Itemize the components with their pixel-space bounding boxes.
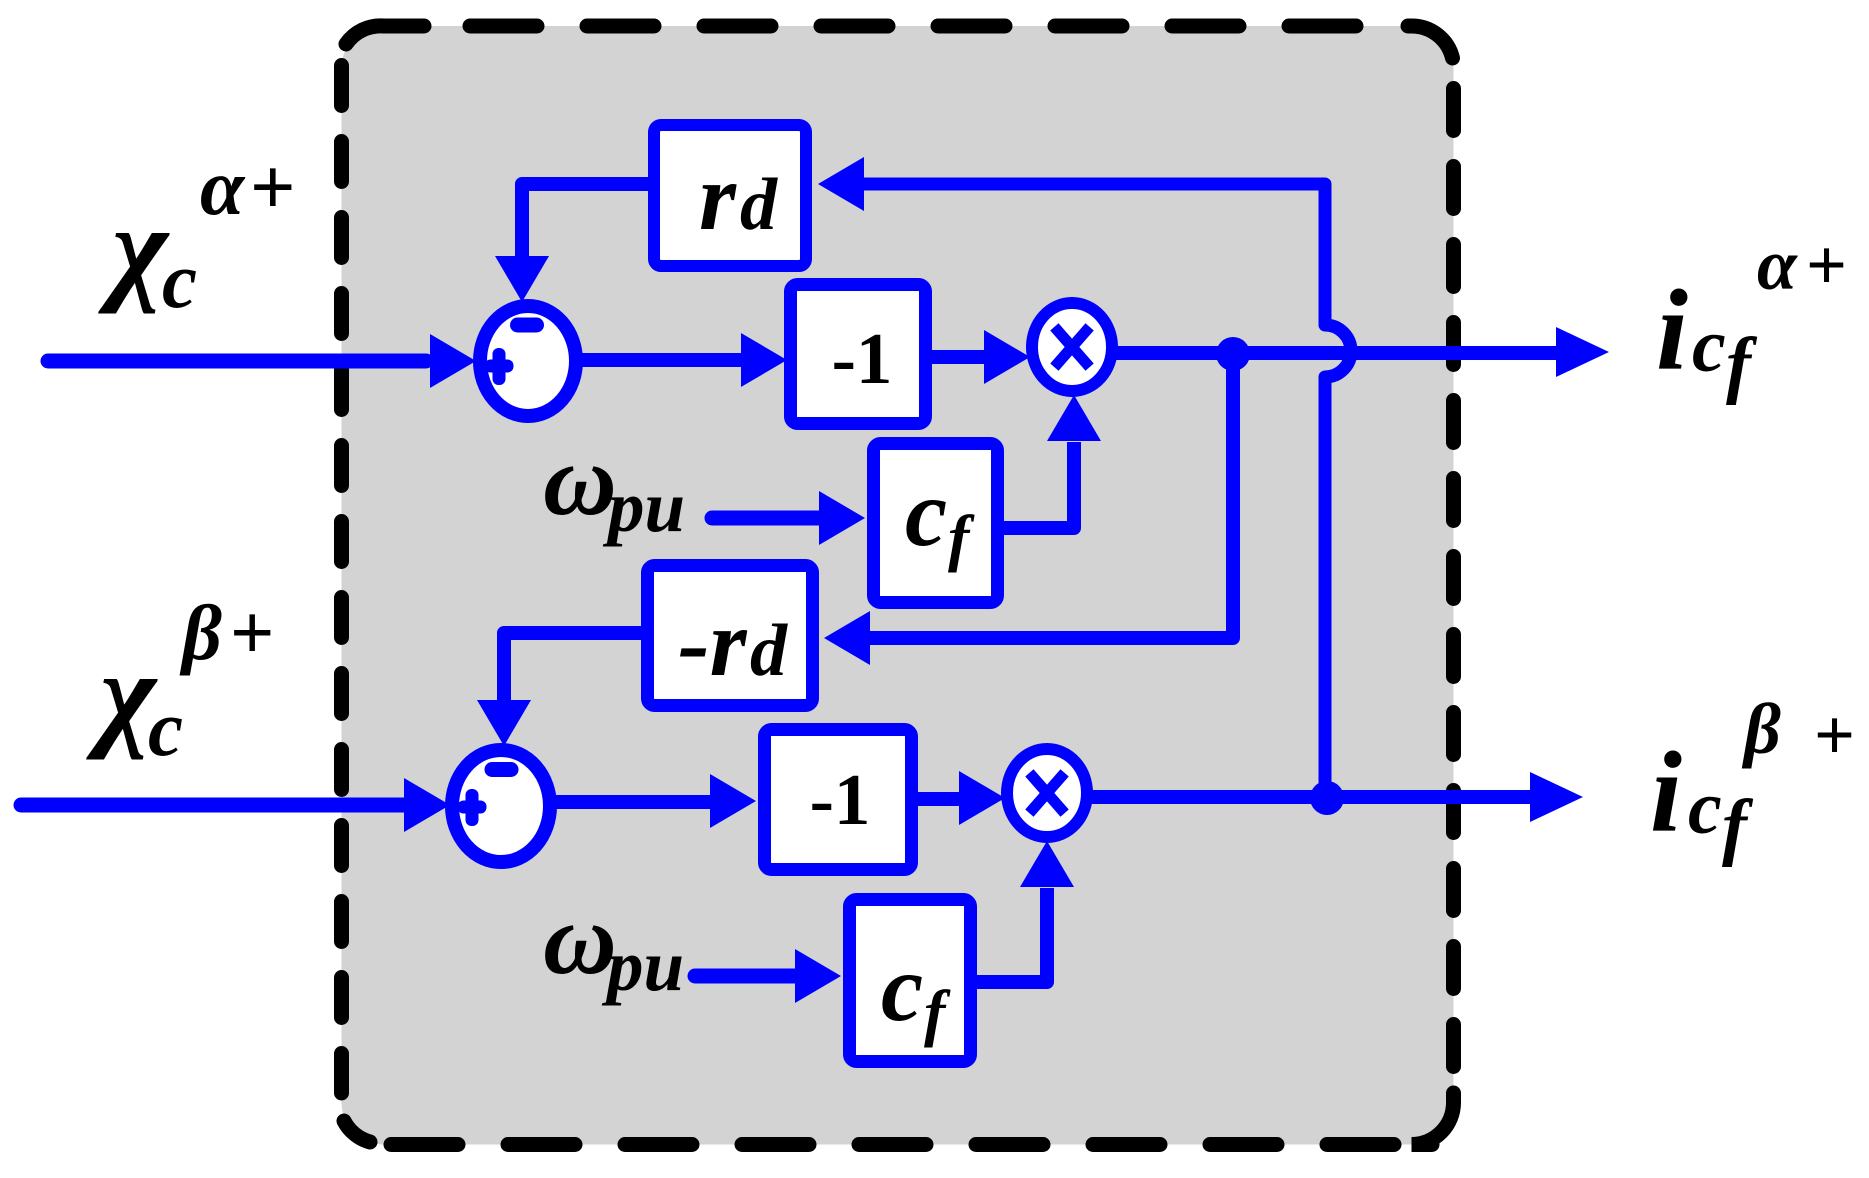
wire cf1 to M1 (1004, 442, 1074, 528)
wire omega_pu to cf (top) (712, 511, 822, 526)
arrow into -1 block (bottom) (710, 774, 756, 828)
arrow output alpha (1556, 327, 1609, 377)
minus sign of S2 (485, 762, 519, 777)
node label chi_c_alpha+ (input alpha) (98, 144, 296, 325)
border corner bottom-right (1412, 1093, 1454, 1145)
node label omega_pu (top) (543, 424, 685, 547)
node A (junction on alpha output) (1216, 337, 1250, 371)
border right edge (dashed) (1446, 89, 1461, 1085)
wire M2 to output beta (1087, 790, 1530, 804)
svg-text:c: c (881, 935, 923, 1041)
arrow into S1 top (495, 256, 549, 302)
wire -rd output to S2 (504, 633, 641, 704)
svg-text:c: c (1688, 766, 1722, 850)
gain block rd (654, 125, 806, 266)
arrow output beta (1530, 772, 1583, 822)
node B (junction on beta output) (1310, 781, 1344, 815)
wire -1 to multiplier (top) (932, 350, 987, 364)
node label chi_c_beta+ (input beta) (86, 589, 274, 773)
node label i_cf_alpha+ (output alpha) (1656, 225, 1847, 406)
svg-text:α: α (1757, 225, 1798, 305)
svg-text:χ: χ (98, 181, 170, 314)
gain block cf (top) (874, 444, 998, 603)
border top edge (dashed) (470, 19, 1404, 34)
arrow into summing junction S1 (430, 334, 476, 388)
arrow into multiplier M1 (984, 330, 1030, 384)
svg-text:-1: -1 (810, 759, 871, 840)
summing junction S2 (452, 750, 550, 862)
arrow into M1 bottom (1047, 395, 1101, 441)
svg-text:+: + (250, 144, 296, 232)
svg-text:pu: pu (602, 466, 685, 547)
svg-text:c: c (1692, 304, 1726, 388)
svg-text:f: f (1726, 323, 1758, 406)
plus sign of S2 (458, 789, 487, 826)
node label i_cf_beta+ (output beta) (1650, 689, 1855, 868)
svg-text:β: β (1741, 689, 1781, 769)
gain block -rd (648, 566, 813, 706)
gain block -1 (bottom) (765, 730, 912, 870)
multiplier M2 (bottom) (1007, 749, 1087, 837)
node label omega_pu (bottom) (543, 883, 684, 1006)
dashed boundary box (gray fill) (342, 26, 1454, 1145)
svg-text:+: + (1814, 695, 1855, 775)
svg-text:+: + (1806, 225, 1847, 305)
svg-text:c: c (162, 238, 197, 325)
wire S1 to block -1 (top) (576, 353, 744, 367)
arrow into rd block (818, 157, 864, 211)
gain block cf (bottom) (850, 900, 971, 1062)
wire input beta (21, 798, 404, 813)
arrow into cf block (top) (819, 491, 865, 545)
svg-text:d: d (740, 164, 778, 246)
wire omega_pu to cf (bottom) (695, 969, 797, 984)
svg-text:-r: -r (678, 590, 748, 696)
svg-text:i: i (1656, 267, 1688, 394)
arrow into summing junction S2 (404, 778, 450, 832)
arrow into multiplier M2 (959, 771, 1005, 825)
gain block -1 (top) (791, 285, 926, 424)
border corner top-left (346, 26, 424, 44)
svg-text:α: α (200, 144, 246, 232)
arrow into -rd block (824, 611, 870, 665)
multiplier M1 (top) (1032, 303, 1112, 391)
minus sign of S1 (510, 318, 544, 333)
arrow into cf block (bottom) (795, 949, 841, 1003)
svg-text:ω: ω (543, 424, 617, 537)
svg-text:ω: ω (543, 883, 617, 996)
wire node B up to rd input (with hop over alpha line) (864, 184, 1351, 798)
wire -1 to multiplier (bottom) (917, 792, 962, 806)
svg-text:c: c (905, 460, 947, 566)
border corner bottom-left (344, 1121, 370, 1142)
wire input alpha (48, 354, 426, 369)
arrow into M2 bottom (1020, 841, 1074, 887)
svg-text:i: i (1650, 729, 1682, 856)
plus sign of S1 (485, 348, 514, 385)
svg-text:-1: -1 (832, 318, 893, 399)
summing junction S1 (480, 306, 576, 416)
svg-text:pu: pu (601, 925, 684, 1006)
svg-text:+: + (230, 589, 274, 676)
border corner top-right (1408, 26, 1453, 58)
arrow into S2 top (477, 700, 531, 746)
wire rd output to S1 (522, 184, 648, 260)
arrow into -1 block (top) (741, 333, 787, 387)
wire cf2 to M2 (977, 888, 1047, 982)
svg-text:d: d (750, 610, 788, 692)
border left edge (dashed) (334, 66, 349, 1094)
wire node A down to -rd input (870, 354, 1233, 638)
svg-text:c: c (148, 686, 183, 773)
wire S2 to block -1 (bottom) (550, 795, 710, 809)
wire M1 to output alpha (1112, 346, 1556, 360)
svg-text:r: r (699, 144, 737, 250)
border bottom edge (dashed) (391, 1137, 1404, 1152)
svg-text:β: β (179, 589, 222, 676)
svg-text:f: f (1722, 785, 1754, 868)
